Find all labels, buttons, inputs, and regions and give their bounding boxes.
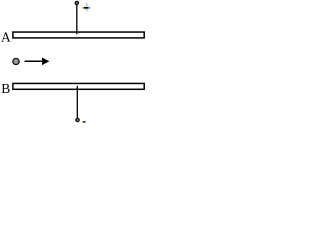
- polarity label (82, 121, 86, 123)
plate A (top electrode) (13, 32, 144, 38)
velocity arrow (25, 58, 50, 66)
wire from + terminal to plate A (76, 4, 78, 34)
charged particle (13, 58, 19, 64)
svg-text:A: A (1, 30, 11, 45)
+ polarity label (82, 3, 90, 11)
svg-text:B: B (1, 81, 10, 96)
+ terminal node (75, 1, 78, 4)
plate B (bottom electrode) (13, 83, 144, 89)
- terminal node (76, 118, 79, 121)
wire from plate B to - terminal (76, 86, 78, 118)
